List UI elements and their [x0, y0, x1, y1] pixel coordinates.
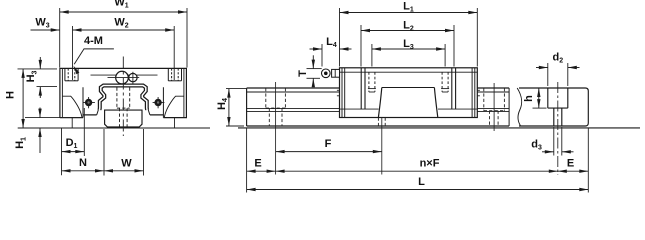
- rail sectioned right end: [519, 88, 588, 126]
- left end cap joint: [364, 68, 366, 109]
- block side seal lip lines: [340, 108, 379, 110]
- dimension E left: [246, 128, 248, 193]
- rail bolt shank hidden line left: [119, 108, 121, 127]
- right end seal line: [474, 68, 476, 118]
- right wing lower edge stub: [174, 118, 176, 128]
- rail bolt shank hidden line right: [126, 108, 128, 127]
- dimension W3: [31, 29, 60, 31]
- extension line W1 left: [59, 8, 61, 68]
- dimension D1: [61, 128, 63, 175]
- svg-text:W: W: [121, 158, 132, 170]
- svg-text:H: H: [5, 91, 17, 99]
- dimension W2: [73, 29, 175, 31]
- vertical centerline left view: [122, 57, 124, 137]
- grease nipple front view: [129, 73, 137, 81]
- block cross-section outer profile: [60, 68, 186, 117]
- left end cap joint: [360, 68, 362, 109]
- rail bolt hole 3 hidden: [483, 88, 485, 111]
- dimension H4: [226, 88, 246, 90]
- end cap edge line: [91, 74, 158, 76]
- hole 1 centerline: [275, 82, 277, 175]
- svg-text:T: T: [297, 70, 309, 77]
- rail side view left segment: [246, 88, 248, 126]
- dimension L: [247, 189, 589, 191]
- end seal edge right: [183, 68, 185, 117]
- hole 3 centerline: [493, 83, 495, 131]
- left wing lower edge stub: [71, 118, 73, 128]
- svg-text:n×F: n×F: [420, 157, 440, 169]
- grease nipple side view: [332, 69, 340, 77]
- hole 2 centerline: [381, 114, 383, 175]
- dimension L3: [371, 44, 373, 67]
- dimension W1: [60, 11, 187, 13]
- block side view body: [340, 68, 478, 118]
- svg-text:h: h: [523, 95, 535, 102]
- end seal curve right: [164, 96, 184, 117]
- nipple horizontal centerline: [108, 77, 140, 79]
- wing hole center mark left: [83, 102, 95, 104]
- end seal curve left: [62, 96, 82, 117]
- block mounting hole right hidden: [441, 72, 443, 92]
- svg-text:E: E: [254, 157, 261, 169]
- left end seal line: [341, 68, 343, 118]
- dimension L2: [360, 25, 362, 67]
- dimension L4: [321, 44, 323, 67]
- rail bolt counterbore hidden line right: [129, 88, 131, 109]
- dimension h: [533, 107, 547, 109]
- rail bolt seat hidden line: [117, 107, 130, 109]
- end seal lip ticks: [337, 89, 340, 91]
- dimension F: [276, 151, 382, 153]
- wing hole center mark right: [153, 102, 165, 104]
- dimension H3: [37, 86, 58, 88]
- extension line W2 left: [72, 26, 74, 80]
- rail bolt hole 1 hidden: [265, 88, 267, 108]
- rail bolt hole 2 hidden below block: [377, 118, 379, 127]
- dimension d2: [547, 63, 549, 86]
- block lower rib contour: [378, 88, 437, 118]
- svg-text:L: L: [418, 176, 425, 188]
- threaded hole 4-M right: [167, 68, 169, 80]
- block top second line: [340, 71, 478, 73]
- svg-text:4-M: 4-M: [84, 35, 103, 47]
- mounting base line right view: [238, 127, 640, 129]
- dimension T: [307, 68, 322, 70]
- rail bolt counterbore hidden line left: [116, 88, 118, 109]
- rail and block raceway contour: [100, 86, 148, 111]
- dimension nxF: [276, 170, 558, 172]
- section cut line: [508, 88, 510, 126]
- rail lower body: [105, 110, 142, 127]
- extension line W1 right: [186, 8, 188, 68]
- dimension N: [103, 129, 105, 176]
- mounting base line left view: [18, 127, 210, 129]
- rail side view right segment: [477, 87, 509, 89]
- break line freehand: [517, 88, 522, 126]
- svg-text:E: E: [567, 158, 574, 170]
- svg-text:N: N: [79, 157, 87, 169]
- rail bolt hole 4 sectioned: [547, 88, 549, 108]
- extension line W2 right: [173, 26, 175, 80]
- dimension W: [104, 170, 144, 172]
- dimension H1: [25, 117, 82, 119]
- seal lip chamfers: [97, 110, 150, 115]
- left end seal line: [344, 68, 346, 118]
- svg-text:F: F: [325, 138, 332, 150]
- dimension L1: [339, 8, 341, 67]
- block mounting hole left hidden: [368, 72, 370, 92]
- dimension d3: [553, 127, 555, 156]
- dimension E right: [587, 128, 589, 193]
- nipple small circle centerline: [132, 72, 134, 84]
- right end seal line: [471, 68, 473, 118]
- threaded hole 4-M left: [64, 68, 66, 80]
- hole 4 centerline: [557, 82, 559, 175]
- end seal edge left: [61, 68, 63, 117]
- right end cap joint: [451, 68, 453, 109]
- dimension H: [18, 68, 58, 70]
- right end cap joint: [455, 68, 457, 109]
- wing inner walls: [83, 87, 163, 117]
